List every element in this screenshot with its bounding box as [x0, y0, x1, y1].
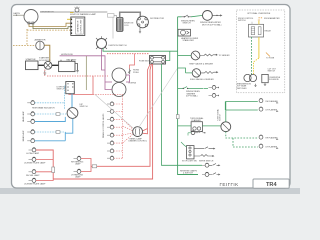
svg-text:CONTROL UNIT: CONTROL UNIT — [81, 19, 83, 34]
wire: blue solid lighting switch down to dip switch — [71, 94, 73, 108]
svg-text:LAMP: LAMP — [75, 176, 81, 179]
fuse box — [139, 56, 166, 65]
wire: generator D to control box (brown) — [29, 23, 71, 26]
control box (voltage regulator) — [67, 17, 85, 36]
wire: purple horn wiring — [105, 68, 112, 90]
lighting switch — [57, 82, 75, 94]
svg-text:SWITCHES: SWITCHES — [237, 88, 248, 90]
wire: cyan dashed from lighting switch down-left — [65, 86, 66, 109]
svg-text:PUSH: PUSH — [133, 72, 139, 74]
voltage stabilizer — [178, 29, 199, 42]
ground: battery — [76, 71, 79, 73]
wire: red vertical to horn push — [130, 54, 135, 69]
svg-text:EARTH: EARTH — [14, 12, 21, 15]
svg-text:HEAD LAMP: HEAD LAMP — [22, 110, 25, 122]
svg-text:SWITCH: SWITCH — [80, 106, 88, 108]
wire: ammeter to starter solenoid (brown) — [44, 45, 50, 61]
windscreen wiper switch — [181, 15, 195, 25]
svg-text:LICENSE PLATE LAMP: LICENSE PLATE LAMP — [24, 162, 46, 165]
svg-text:LH FLASHER: LH FLASHER — [266, 145, 278, 148]
optional overdrive dashed box — [237, 10, 285, 93]
wire: green from turn switch up to lamp rows — [226, 102, 258, 122]
svg-text:LAMP: LAMP — [75, 163, 81, 166]
terminal D — [71, 29, 73, 31]
svg-text:GENERATOR: GENERATOR — [77, 20, 80, 32]
lamp: LH rear flasher — [259, 144, 278, 149]
wire: yellow down from relay — [258, 37, 260, 58]
wire: green main feed from ignition switch — [103, 48, 178, 51]
horn push — [128, 69, 139, 74]
wire: battery to ground — [75, 64, 78, 71]
yellow wire mark — [67, 18, 71, 20]
TR4 title box — [253, 179, 289, 188]
lamp: LH front flasher — [259, 107, 278, 112]
wire: cyan dashed main beam row — [35, 113, 56, 115]
lamp: license 2 — [24, 178, 46, 186]
ignition coil — [117, 18, 134, 32]
wire: red bus lines from fuse box down — [142, 64, 150, 134]
wire: green to flasher and switch — [178, 125, 221, 127]
wire: green from fuse box down to bottom — [162, 64, 203, 165]
connector: main beam — [56, 113, 60, 116]
svg-text:AMMETER: AMMETER — [35, 38, 46, 41]
reverse lamp row 1 — [180, 163, 220, 175]
ignition warning lamp row — [40, 6, 107, 15]
page sheet — [12, 5, 291, 189]
connector nub on green trunk — [176, 115, 179, 119]
lamp: tail RH — [26, 169, 40, 177]
reverse lamp row 2 — [202, 172, 220, 176]
svg-text:HORNS: HORNS — [129, 83, 137, 85]
wire: red dashed ignition to fuse box — [107, 53, 150, 55]
distributor — [137, 16, 165, 28]
starter solenoid SW — [39, 57, 52, 70]
svg-text:RH FLASHER: RH FLASHER — [266, 100, 279, 103]
wire: blue solid RH dip row joining — [35, 119, 73, 141]
svg-text:RELAY: RELAY — [265, 30, 272, 33]
wire: red tail bus — [36, 150, 53, 179]
wire: white lead into coil — [114, 15, 117, 18]
wire: red dashed bus to dimmer — [123, 104, 133, 158]
wire: green into connector — [181, 142, 187, 147]
wire: temp gauge leads — [178, 55, 192, 57]
svg-text:OPTIONAL OVERDRIVE: OPTIONAL OVERDRIVE — [247, 12, 271, 15]
terminal A — [71, 19, 73, 21]
panel dimmer control — [129, 127, 148, 143]
wire: parking lamp red bus — [81, 159, 97, 172]
wire: orange jog in overdrive — [266, 53, 270, 57]
svg-text:LH FLASHER: LH FLASHER — [266, 108, 278, 111]
svg-text:& SWITCH: & SWITCH — [183, 173, 193, 175]
wire: solenoid to battery — [52, 64, 59, 66]
windscreen washer row — [178, 87, 208, 98]
lamp: high beam indicator — [27, 100, 34, 104]
wire: red dashed starter solenoid to fuse box — [47, 75, 108, 77]
lamp: tail LH — [26, 148, 40, 156]
lamp: RH headlamp main — [27, 130, 34, 134]
windscreen wiper motor — [200, 11, 222, 27]
svg-text:TEMP GAUGE & SENDER: TEMP GAUGE & SENDER — [189, 63, 214, 66]
panel lamp column — [102, 113, 105, 138]
dip switch — [67, 104, 88, 118]
svg-text:HEAD LAMP: HEAD LAMP — [22, 130, 25, 142]
svg-text:COIL: COIL — [124, 25, 130, 27]
wire: distributor to ground stub — [139, 28, 141, 33]
connector parking — [92, 165, 97, 168]
fuel gauge — [190, 69, 214, 81]
lamp: LH headlamp main — [27, 112, 34, 116]
starter motor — [26, 58, 39, 70]
lamp: RH rear flasher — [259, 135, 278, 140]
background mat — [0, 0, 300, 194]
svg-text:FUSE BOX: FUSE BOX — [139, 61, 150, 63]
svg-text:(OPTIONAL): (OPTIONAL) — [186, 95, 198, 98]
connector: RH main — [56, 131, 60, 134]
svg-text:TR4: TR4 — [266, 182, 277, 188]
horns — [112, 68, 137, 97]
wire: cyan dashed indicator row — [35, 102, 65, 104]
wire: green trunk top — [178, 17, 198, 175]
wire: tan dashed from junction down to ammeter — [27, 29, 71, 45]
lamp: license 1 — [24, 157, 46, 165]
svg-text:STOP LIGHT SW: STOP LIGHT SW — [182, 160, 197, 162]
wire: coil HT lead to distributor — [120, 12, 141, 17]
wire: stub to generator from left edge — [13, 12, 24, 16]
lamp: LH headlamp dip — [27, 119, 34, 123]
turn signal flasher — [190, 117, 204, 132]
lamps: panel column x8 — [107, 102, 114, 160]
lamp: LH parking — [71, 169, 83, 179]
lamp: RH front flasher — [259, 98, 278, 103]
svg-text:FROM AMMETER: FROM AMMETER — [264, 17, 280, 20]
ground: solenoid — [264, 83, 266, 86]
wire: purple down from ignition switch to horns — [102, 49, 106, 71]
svg-text:RH TAIL LAMP: RH TAIL LAMP — [26, 174, 40, 177]
wire: purple horn feed from battery junction — [60, 56, 105, 68]
svg-text:SWITCH: SWITCH — [57, 89, 65, 91]
svg-text:SWITCH: SWITCH — [183, 23, 191, 25]
transmission switches (two circles) — [237, 74, 257, 89]
ground: transmission — [254, 84, 256, 87]
stop lamp switch connector — [182, 146, 214, 163]
svg-text:SWITCH: SWITCH — [238, 20, 246, 22]
wire: green fuse box right link — [166, 51, 170, 60]
svg-text:FLASHER: FLASHER — [192, 119, 202, 122]
terminal F — [71, 26, 73, 28]
svg-text:SOLENOID: SOLENOID — [269, 79, 279, 81]
wire: red from lighting switch up — [69, 76, 93, 94]
svg-text:LICENSE PLATE LAMP: LICENSE PLATE LAMP — [24, 183, 46, 186]
svg-text:STABILIZER: STABILIZER — [183, 39, 195, 42]
overdrive relay — [249, 24, 272, 37]
ground: under solenoid — [43, 70, 46, 75]
wire: starter to solenoid — [38, 64, 44, 66]
wire: fuel gauge leads — [178, 68, 193, 73]
svg-text:RH FLASHER: RH FLASHER — [266, 136, 279, 139]
svg-text:ΓΕΙΓΓΙΚ: ΓΕΙΓΓΙΚ — [220, 182, 240, 187]
svg-text:WIPER SWITCH: WIPER SWITCH — [199, 160, 214, 162]
terminal A1 — [71, 23, 73, 25]
ammeter M1 — [35, 38, 46, 50]
ignition switch — [96, 36, 127, 49]
wire: blue solid dip beam row — [35, 117, 66, 122]
svg-text:TO FUSE: TO FUSE — [266, 58, 275, 60]
svg-text:PANEL & CONTROL LAMPS: PANEL & CONTROL LAMPS — [102, 113, 105, 138]
bottom gray band — [0, 188, 300, 194]
svg-text:IGNITION WARNING LAMP: IGNITION WARNING LAMP — [70, 13, 97, 16]
svg-text:TO SENDER: TO SENDER — [219, 55, 231, 57]
wire: green dashed from turn switch down — [226, 132, 258, 138]
terminal E — [71, 32, 73, 34]
wire: relay terminal stub — [258, 21, 260, 25]
wire: brown feed to ignition switch — [85, 56, 87, 90]
svg-text:STARTER: STARTER — [26, 58, 36, 61]
svg-text:BATTERY: BATTERY — [67, 59, 77, 62]
svg-text:FUEL GAUGE & SENDER: FUEL GAUGE & SENDER — [190, 78, 214, 81]
wire: cyan dashed RH main row — [35, 131, 56, 133]
map light row — [188, 131, 206, 136]
svg-text:IGNITION SWITCH: IGNITION SWITCH — [109, 45, 128, 47]
overdrive solenoid — [262, 74, 281, 82]
lamp: RH headlamp dip — [27, 138, 34, 142]
wire: from warning lamp row down to ignition switch — [108, 14, 115, 18]
svg-text:DISTRIBUTOR: DISTRIBUTOR — [150, 18, 165, 20]
wire: wiper motor to terminal arrow — [212, 15, 221, 17]
wire: tan dashed from left edge to ammeter — [13, 45, 36, 47]
svg-text:LH TAIL LAMP: LH TAIL LAMP — [26, 152, 40, 155]
wire: connector leads right — [194, 147, 215, 150]
svg-text:HIGH BEAM INDICATOR: HIGH BEAM INDICATOR — [32, 106, 55, 109]
svg-text:MOTOR (OPTIONAL): MOTOR (OPTIONAL) — [202, 23, 222, 26]
lamp: RH parking — [71, 156, 84, 166]
connector on tail bus — [52, 167, 55, 173]
wire: orange dashes from ammeter — [259, 17, 264, 19]
wire: green to wiper motor — [191, 15, 203, 16]
wire: red dashed panel feeds to bus — [114, 104, 123, 158]
wire: green down from relay — [251, 37, 253, 75]
temp gauge — [189, 51, 214, 66]
turn signal switch — [217, 109, 231, 132]
mechanical link line — [95, 95, 133, 129]
generator G1 — [24, 10, 54, 25]
svg-text:SWITCH: SWITCH — [268, 71, 276, 73]
wire: generator F to control box (olive) — [33, 24, 71, 29]
svg-text:DIMMER CONTROL: DIMMER CONTROL — [129, 141, 148, 143]
svg-text:SWITCH: SWITCH — [220, 113, 222, 121]
lamp pair right of washer — [209, 85, 220, 89]
svg-text:HORN FUSE: HORN FUSE — [61, 54, 73, 56]
svg-text:SOLENOID: SOLENOID — [39, 60, 51, 62]
battery B1 — [59, 59, 77, 72]
